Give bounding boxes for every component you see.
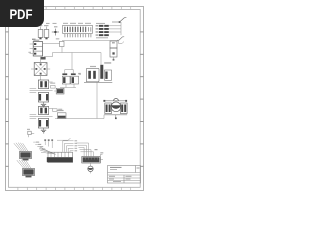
net label NF2 — [118, 41, 124, 44]
transformer T1 secondary — [38, 93, 48, 103]
capacitor C5 — [100, 65, 103, 79]
label BR1 — [40, 57, 45, 60]
svg-text:PDF: PDF — [10, 6, 33, 22]
test point TP1 — [52, 26, 59, 35]
PDF badge — [0, 0, 44, 27]
label W1 — [56, 38, 60, 39]
net labels — [33, 142, 45, 150]
jumper W1 — [60, 41, 65, 46]
diode D3 — [96, 31, 109, 33]
wire — [31, 57, 50, 80]
relay K1 coil — [110, 41, 117, 48]
capacitor C3 — [62, 73, 70, 84]
wire — [62, 40, 118, 42]
wire — [109, 25, 121, 27]
connector J4 — [17, 160, 35, 178]
wire — [120, 22, 122, 35]
node A — [103, 100, 105, 102]
title block — [108, 166, 141, 184]
connector J3 — [14, 143, 32, 161]
buzzer LS1 — [111, 98, 121, 111]
transformer T2 primary — [38, 107, 52, 115]
wire — [60, 53, 81, 88]
wire — [109, 31, 121, 33]
header J5 — [39, 139, 78, 162]
wire — [109, 28, 121, 30]
connector J6 — [77, 143, 104, 163]
wire — [30, 89, 53, 93]
node C — [115, 117, 117, 119]
capacitor C4 — [71, 73, 79, 84]
resistor network RN1 — [46, 23, 105, 38]
capacitor C8 — [120, 103, 127, 114]
resistor R4 — [53, 109, 63, 112]
capacitor C7 — [105, 103, 112, 114]
switch SW2 — [117, 37, 124, 40]
capacitor C1 — [32, 25, 43, 40]
wire — [55, 82, 104, 118]
resistor R3 — [57, 110, 66, 118]
diode D1 — [96, 25, 109, 27]
ground — [41, 102, 46, 107]
switch SW1 — [112, 18, 126, 23]
transformer T1 primary — [38, 80, 52, 89]
capacitor C6 — [104, 62, 111, 80]
node B — [125, 100, 127, 102]
diode D4 — [96, 34, 109, 38]
wire — [28, 44, 33, 53]
regulator U1 — [86, 66, 99, 82]
wire — [104, 101, 127, 118]
wire — [30, 115, 53, 119]
transformer T2 secondary — [38, 119, 48, 129]
relay K1 contact — [110, 48, 117, 61]
connector J1 — [33, 40, 42, 56]
connector P1 label — [27, 129, 34, 137]
ground — [41, 128, 46, 133]
capacitor C2 — [44, 25, 49, 39]
resistor R2 — [50, 83, 55, 89]
LED D5 — [88, 163, 93, 173]
wire — [84, 81, 112, 83]
connector J2 — [54, 88, 64, 94]
diode D2 — [96, 28, 109, 30]
bridge rectifier BR1 — [34, 63, 47, 76]
net flag N1 — [57, 138, 71, 140]
wire — [43, 44, 102, 65]
